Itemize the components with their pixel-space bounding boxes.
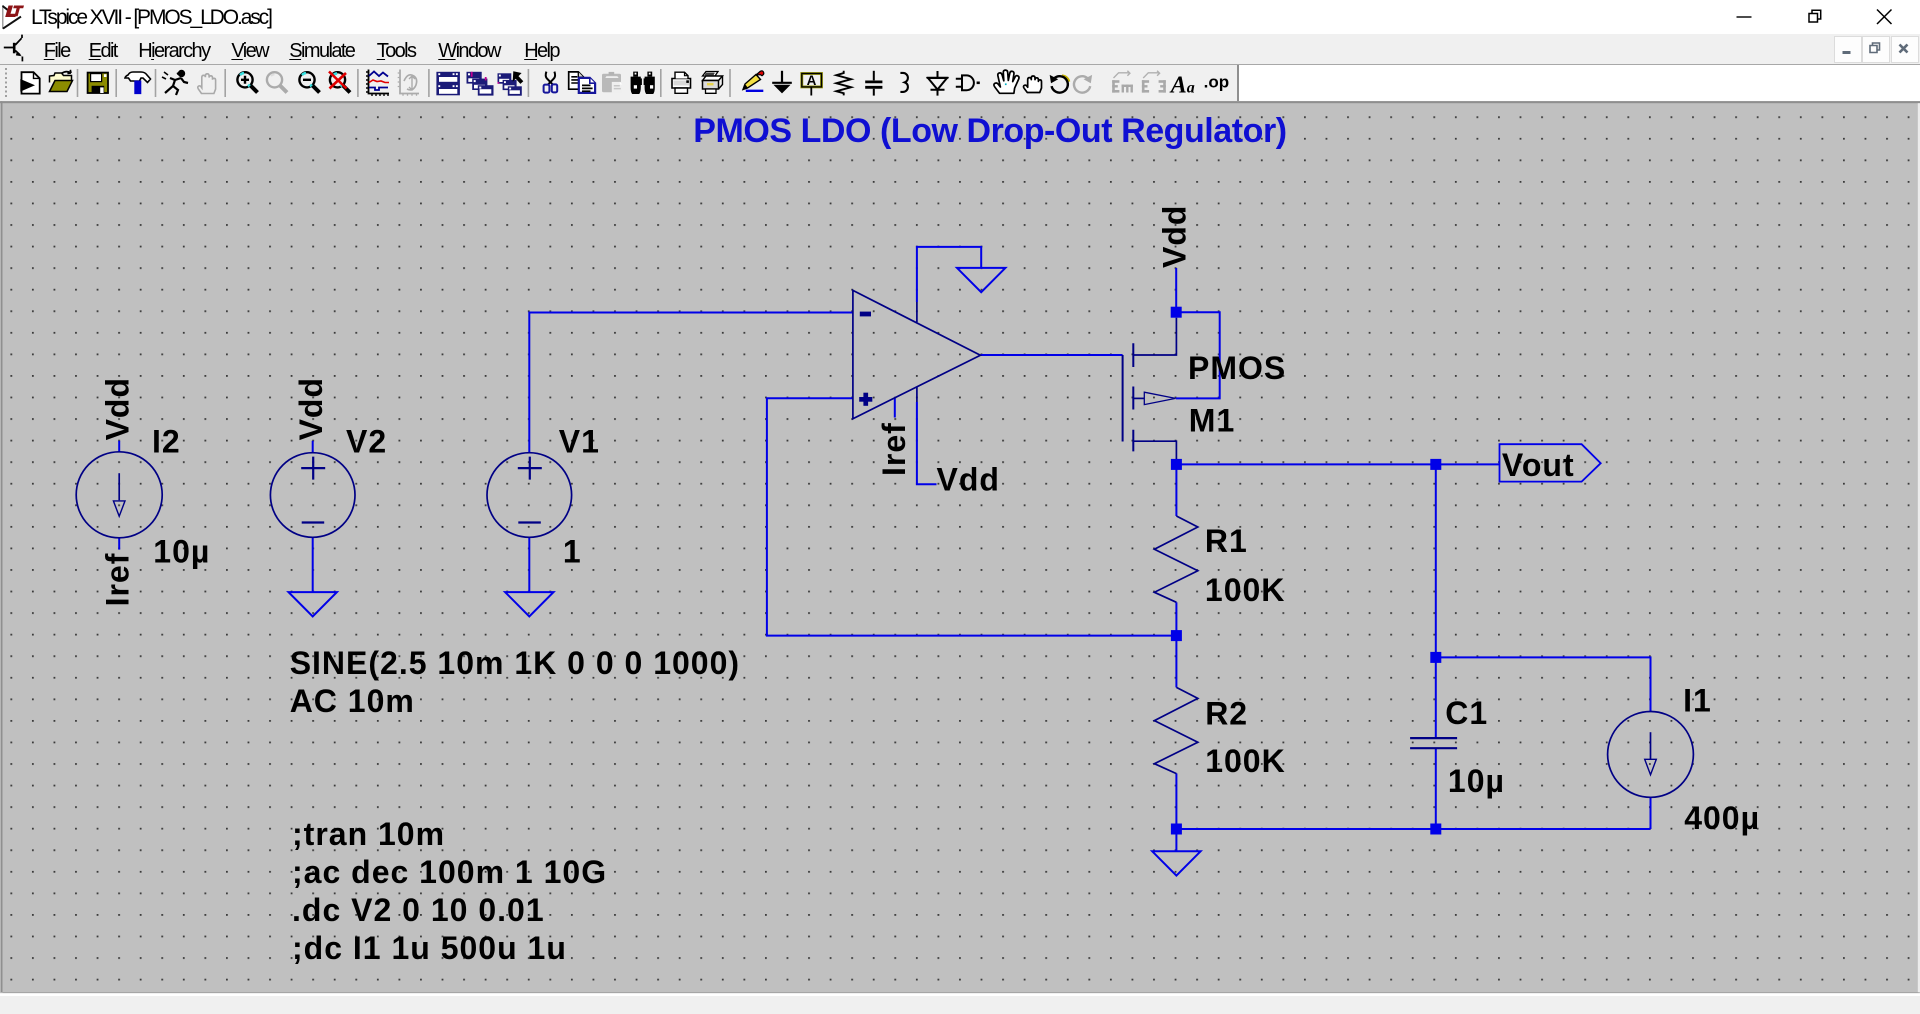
svg-text:1: 1: [563, 533, 582, 569]
svg-text:Vdd: Vdd: [293, 377, 329, 440]
svg-text:Vdd: Vdd: [1157, 205, 1193, 268]
svg-text:;ac dec 100m 1 10G: ;ac dec 100m 1 10G: [292, 854, 607, 890]
svg-text:10µ: 10µ: [1448, 763, 1505, 799]
svg-text:R1: R1: [1205, 523, 1248, 559]
svg-text:V1: V1: [559, 424, 600, 460]
svg-text:10µ: 10µ: [153, 533, 210, 569]
svg-text:A: A: [807, 73, 817, 88]
svg-text:PMOS: PMOS: [1188, 350, 1286, 386]
svg-text:Iref: Iref: [876, 422, 912, 476]
svg-text:Vout: Vout: [1502, 447, 1575, 483]
svg-text:I1: I1: [1683, 683, 1712, 719]
svg-text:a: a: [1187, 79, 1195, 96]
svg-text:Vdd: Vdd: [99, 377, 135, 440]
svg-text:;dc I1 1u 500u 1u: ;dc I1 1u 500u 1u: [292, 930, 567, 966]
svg-text:Iref: Iref: [100, 553, 136, 607]
svg-text:400µ: 400µ: [1684, 800, 1760, 836]
svg-text:M1: M1: [1189, 403, 1235, 439]
svg-text:AC 10m: AC 10m: [290, 683, 415, 719]
svg-text:SINE(2.5 10m 1K 0 0 0 1000): SINE(2.5 10m 1K 0 0 0 1000): [290, 645, 740, 681]
svg-text:.op: .op: [1204, 72, 1230, 91]
svg-text:100K: 100K: [1205, 743, 1286, 779]
svg-text:A: A: [1169, 72, 1187, 98]
svg-text:;tran 10m: ;tran 10m: [292, 816, 445, 852]
svg-text:C1: C1: [1445, 695, 1488, 731]
svg-text:Vdd: Vdd: [937, 461, 1000, 497]
svg-text:R2: R2: [1205, 696, 1248, 732]
svg-text:I2: I2: [152, 424, 181, 460]
svg-text:V2: V2: [346, 424, 387, 460]
svg-text:.dc V2 0 10 0.01: .dc V2 0 10 0.01: [292, 892, 545, 928]
svg-text:PMOS LDO (Low Drop-Out Regulat: PMOS LDO (Low Drop-Out Regulator): [693, 112, 1286, 150]
svg-text:100K: 100K: [1205, 572, 1286, 608]
